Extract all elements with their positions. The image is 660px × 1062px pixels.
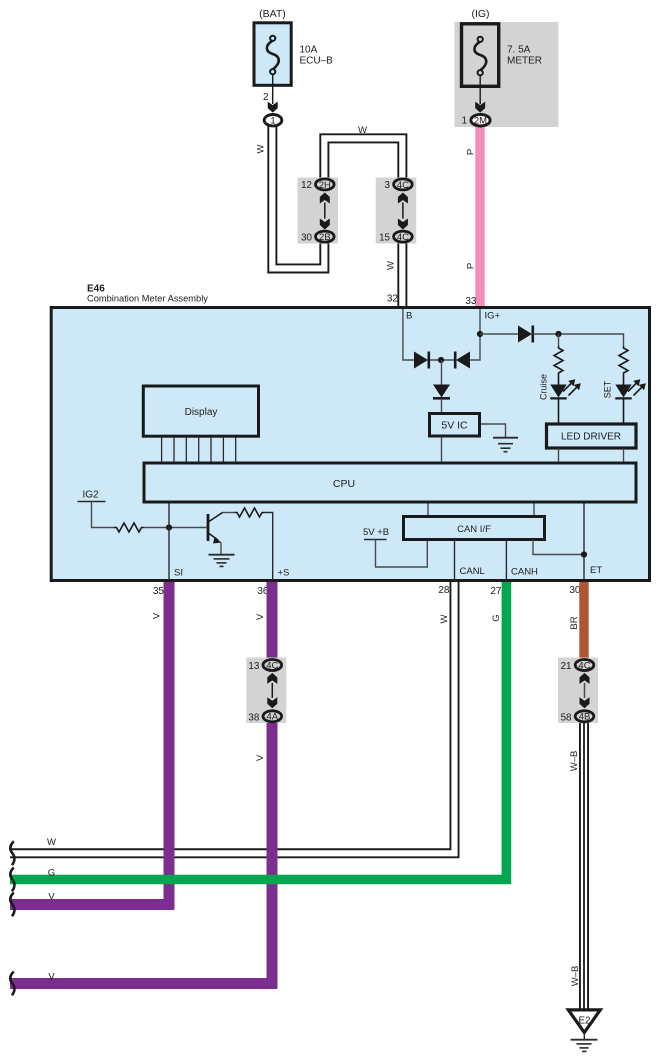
svg-text:12: 12 [301,180,312,191]
fuse METER box [462,24,499,87]
svg-text:Display: Display [185,407,218,418]
resistor R4 (collector) [235,508,265,517]
ground (5V IC) [481,424,506,438]
svg-text:V: V [255,754,266,761]
wire-continuation squiggle (V upper) [10,893,14,917]
wire fuse to pin 2 [272,74,274,104]
connector arrows 4C/4B [580,673,590,684]
svg-text:CANH: CANH [511,567,538,578]
ellipse 38 4A [263,711,282,722]
svg-text:Combination Meter Assembly: Combination Meter Assembly [87,294,208,304]
svg-text:5V IC: 5V IC [441,420,468,432]
wire CANL [454,540,456,581]
svg-text:BR: BR [569,616,580,629]
wire LED2 to LED DRIVER [623,398,625,423]
svg-text:4C: 4C [266,660,278,671]
svg-text:2M: 2M [474,116,487,127]
svg-text:4C: 4C [397,232,409,243]
pin 32 entry wire (B) [403,309,414,360]
svg-text:+S: +S [278,568,290,579]
pin 33 entry wire (IG+) [470,309,480,360]
ellipse 58 4B [575,711,594,722]
wire 5V +B to CAN I/F [376,540,428,568]
svg-text:10A: 10A [300,45,318,56]
diode D2 (to 5V IC, from IG+) [456,352,470,369]
fuse ECU-B symbol [267,36,279,75]
wire node down to resistor R1 [558,334,560,346]
IG2 terminal tick [78,501,106,503]
wire SI: CPU to box bottom [168,504,170,581]
purple wire V: below connector 38(4A) [267,722,278,988]
node LED branch [555,331,561,337]
ellipse 15 4C [394,231,413,242]
svg-text:1: 1 [461,116,467,127]
ellipse 13 4C [263,660,282,671]
svg-text:4C: 4C [397,180,409,191]
svg-text:2B: 2B [319,232,331,243]
wire ET: CPU to box bottom [583,504,585,581]
ground E2 symbol [583,1033,585,1040]
svg-text:4B: 4B [579,712,591,723]
transistor Q1 [207,514,210,541]
svg-text:W: W [256,144,267,153]
wires LED DRIVER to CPU [558,449,560,462]
connector arrows 4C/4A [267,673,277,684]
purple wire V: pin 35 down [164,582,175,909]
Display box [143,386,258,436]
svg-text:13: 13 [248,661,259,672]
green wire G: pin 27 down and left [10,582,506,880]
wire-continuation squiggle (V lower) [10,972,14,996]
svg-text:15: 15 [379,232,390,243]
ellipse 2B [316,231,335,242]
wire R3 to transistor base [144,527,207,529]
svg-text:28: 28 [438,585,450,596]
connector arrows 2H/2B [320,193,330,204]
svg-text:IG2: IG2 [83,490,100,501]
E46 combination meter assembly box [51,308,649,581]
svg-text:38: 38 [248,712,259,723]
svg-text:58: 58 [561,712,572,723]
ellipse 2H [316,179,335,190]
svg-text:CPU: CPU [333,478,355,490]
ellipse connector 2M [471,114,490,126]
svg-text:35: 35 [153,586,165,597]
svg-text:E2: E2 [579,1016,591,1027]
diode D4 (to LEDs) [518,326,532,343]
hollow wire W: from 2H up, right, down to 3(4C) [324,138,402,179]
hollow wire W: pin 28 down and left [10,582,455,853]
svg-text:3: 3 [385,180,391,191]
svg-text:V: V [48,892,55,903]
wire-continuation squiggle (W) [10,841,14,865]
resistor R3 [114,523,144,532]
brown wire BR: pin 30 down [579,582,588,658]
svg-text:G: G [48,868,55,879]
LED1 Cruise [550,385,566,398]
ellipse connector 1 [264,115,282,126]
svg-text:P: P [466,263,477,269]
svg-text:SI: SI [174,568,183,579]
LED DRIVER box [547,424,637,448]
svg-text:P: P [466,149,477,155]
svg-text:SET: SET [603,380,613,398]
diode D3 (down, into 5V IC) [433,385,450,398]
wire-continuation squiggle (G) [10,868,14,892]
fuse METER symbol [474,37,486,76]
hollow wire W from 15(4C) down to pin 32 [397,240,407,306]
CAN I/F box [404,517,545,540]
svg-text:V: V [152,612,163,619]
svg-text:ET: ET [590,565,602,576]
resistor R2 (SET) [619,346,628,385]
svg-text:METER: METER [507,56,542,67]
wire D4 to LED branches [533,334,624,346]
svg-text:IG+: IG+ [485,311,501,322]
svg-text:2H: 2H [319,180,331,191]
svg-text:W: W [47,837,56,848]
LED2 SET [615,385,631,398]
IG fuse gray panel [455,22,559,127]
svg-text:7. 5A: 7. 5A [507,45,531,56]
svg-text:W: W [386,261,397,270]
junction connector block 21(4C)/58(4B) [558,658,598,724]
svg-text:(BAT): (BAT) [259,8,286,20]
wire CANH [505,540,507,581]
CPU box [144,463,636,502]
purple wire V horizontal (upper) [10,899,174,910]
wire CAN I/F to ET [533,540,584,555]
svg-text:CAN I/F: CAN I/F [457,524,491,535]
svg-text:1: 1 [270,116,275,127]
purple wire V horizontal (lower) [10,978,277,989]
hollow wire W: from connector 1 down, right, up to 2B [272,124,324,268]
svg-text:Cruise: Cruise [539,374,549,400]
node SI junction [166,524,172,530]
arrow into connector 1 [268,102,278,113]
hollow wire W-B: 58(4B) to E2 [579,719,589,1009]
svg-text:CANL: CANL [460,566,485,577]
svg-text:2: 2 [263,92,269,103]
node IG+ [477,331,483,337]
diode D1 (to 5V IC, from B) [429,359,456,361]
svg-text:27: 27 [490,586,502,597]
svg-text:(IG): (IG) [471,8,489,20]
purple wire V: pin 36 down to connector [267,582,278,658]
svg-text:5V +B: 5V +B [363,527,389,538]
junction connector block 13(4C)/38(4A) [246,658,286,724]
junction connector block 12(2H)/30(2B) [298,178,339,244]
node: diode junction [438,357,444,363]
5V IC box [430,414,480,437]
arrow into connector 2M [475,102,485,113]
junction connector block 3(4C)/15(4C) [376,178,417,244]
svg-text:4C: 4C [578,660,590,671]
svg-text:LED DRIVER: LED DRIVER [561,432,621,443]
ground (transistor emitter) [209,555,235,567]
ellipse 3 4C [394,179,413,190]
wire D3 to 5V IC [441,398,443,412]
5V +B terminal tick [364,539,387,541]
wire emitter to ground [220,543,222,555]
svg-text:G: G [491,614,502,621]
svg-text:30: 30 [301,232,312,243]
svg-text:W–B: W–B [569,751,580,772]
wire IG+ to diode D4 [480,333,518,335]
node ET [581,551,587,557]
svg-text:32: 32 [387,294,399,305]
svg-text:4A: 4A [266,712,278,723]
wire R4 to +S [265,513,273,581]
svg-text:W: W [439,614,450,623]
ground E2 triangle [568,1010,600,1033]
wire fuse to pin 1 [479,75,481,104]
connector arrows 4C/4C [398,193,408,204]
Display to CPU hatch wires [162,437,236,462]
svg-text:W–B: W–B [570,966,581,987]
fuse ECU-B box [254,23,291,86]
svg-text:V: V [255,613,266,620]
svg-text:V: V [48,972,55,983]
wire 5V IC to CPU [441,437,443,462]
wire junction down to diode D3 [441,360,443,385]
wire LED1 to LED DRIVER [558,398,560,423]
svg-text:30: 30 [569,585,581,596]
wire IG2 to resistor R3 [92,502,115,528]
svg-text:33: 33 [465,296,477,307]
resistor R1 (Cruise) [554,346,563,385]
pink wire P to pin 33 [475,124,484,306]
svg-text:ECU–B: ECU–B [300,56,334,67]
svg-text:B: B [406,311,412,322]
svg-text:21: 21 [561,661,572,672]
svg-text:W: W [358,125,367,136]
ellipse 21 4C [575,660,594,671]
wires CPU to CAN I/F [427,504,429,517]
